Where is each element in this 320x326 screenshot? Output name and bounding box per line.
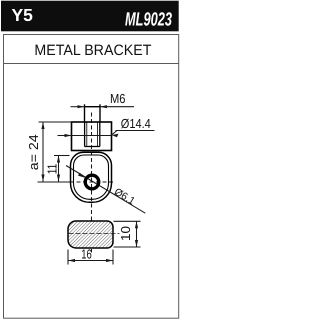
header black bar (1, 1, 179, 32)
svg-text:M6: M6 (110, 91, 126, 106)
eyelet outer outline (71, 152, 112, 202)
vertical dashed centerline (91, 113, 93, 253)
16 dimension (67, 250, 69, 265)
cylinder body (72, 122, 112, 151)
M6 dimension (71, 106, 85, 108)
svg-text:Ø6.1: Ø6.1 (112, 186, 137, 208)
svg-text:11: 11 (45, 164, 60, 175)
svg-text:10: 10 (118, 226, 133, 241)
section centerline stub (69, 233, 120, 235)
11 dimension (54, 155, 70, 157)
svg-text:Y5: Y5 (12, 5, 34, 25)
svg-text:Ø14.4: Ø14.4 (121, 116, 151, 131)
dia 6.1 leader arrowhead (78, 173, 85, 178)
outer frame border (4, 35, 179, 319)
dia 6.1 leader (66, 166, 145, 214)
svg-text:a= 24: a= 24 (26, 134, 41, 170)
dia 14.4 dimension (58, 135, 72, 137)
cross-section hatched (68, 221, 113, 248)
svg-text:16: 16 (81, 246, 92, 261)
svg-text:METAL BRACKET: METAL BRACKET (34, 42, 151, 59)
hole ring (85, 175, 99, 189)
svg-text:ML9023: ML9023 (125, 10, 172, 31)
stud M6 body (84, 104, 86, 122)
horizontal centerline through hole (38, 181, 71, 183)
stud thread hole inside cylinder (84, 122, 86, 147)
10 dimension (114, 220, 141, 222)
a=24 dimension (39, 121, 72, 123)
eyelet inner outline (74, 155, 109, 199)
title divider (4, 63, 179, 65)
